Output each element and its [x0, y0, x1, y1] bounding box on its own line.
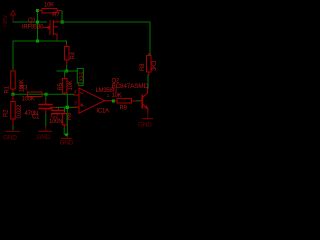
svg-text:100N: 100N [49, 119, 62, 125]
node junction cross [66, 106, 69, 109]
wire cross vertical [66, 94, 68, 134]
resistor R9 [115, 98, 137, 103]
resistor R5 [62, 77, 67, 95]
wire drain left down [12, 41, 14, 70]
svg-text:10K: 10K [112, 93, 122, 99]
node junction drain net [36, 40, 39, 43]
resistor R3 [28, 92, 43, 97]
wire drain right down to R4 [66, 41, 68, 44]
resistor R7 [39, 9, 62, 13]
svg-text:X1-1: X1-1 [79, 71, 85, 81]
svg-text:GND: GND [60, 140, 74, 147]
svg-text:R1: R1 [5, 85, 11, 93]
wire R6 top [63, 107, 65, 111]
node junction R1/R2/R3 [12, 93, 15, 96]
ground R2 [6, 131, 20, 133]
node junction R4 bottom [65, 70, 68, 73]
wire R2 to gnd [12, 126, 14, 130]
connector X1 pin box [77, 69, 83, 84]
wire connector pin stub [79, 83, 83, 86]
svg-text:Q1: Q1 [28, 18, 36, 24]
svg-text:0.022: 0.022 [17, 104, 23, 119]
svg-text:C1: C1 [32, 114, 40, 120]
svg-text:R6: R6 [67, 112, 73, 120]
resistor R2 [11, 96, 16, 127]
svg-text:R5: R5 [58, 82, 64, 90]
op-amp IC1A [74, 88, 112, 113]
wire R9 to Q2 base [137, 100, 140, 102]
ground Q2 [143, 112, 153, 119]
wire C1 top [45, 94, 47, 99]
wire R7-right down [61, 11, 63, 22]
wire R4 bottom [66, 65, 68, 71]
transistor Q1 [44, 21, 62, 42]
wire op-amp output [112, 100, 115, 102]
svg-text:IRF9530: IRF9530 [22, 25, 44, 31]
svg-text:GND: GND [3, 135, 17, 142]
wire R6 bottom elbow [64, 128, 68, 134]
transistor Q2 [140, 88, 148, 112]
svg-text:R9: R9 [120, 106, 128, 112]
supply +20V symbol [11, 11, 16, 23]
svg-text:GND: GND [138, 122, 152, 129]
resistor R1 [11, 70, 16, 93]
svg-text:R7: R7 [52, 13, 60, 19]
svg-text:R3: R3 [20, 85, 28, 91]
svg-text:GND: GND [37, 134, 51, 141]
wire R5 top [64, 71, 66, 77]
wire Q2 collector [147, 75, 149, 88]
resistor R8 [147, 54, 152, 76]
node junction rail cross [36, 21, 39, 24]
wire C1 bottom [45, 114, 47, 127]
wire gate rail to R8 [62, 22, 150, 55]
svg-text:R8: R8 [140, 63, 146, 71]
wire R4 junction to connector [57, 70, 77, 72]
svg-text:BC847ASMD: BC847ASMD [112, 83, 149, 90]
wire pin3 cross [57, 106, 78, 108]
svg-text:100K: 100K [22, 96, 35, 102]
wire sense net [13, 93, 74, 95]
ground C1 [39, 127, 52, 132]
wire +20V rail [13, 21, 47, 23]
node junction R7-left [36, 9, 39, 12]
wire drain net [13, 40, 67, 42]
svg-text:+20V: +20V [3, 15, 9, 28]
capacitor C1 [39, 99, 52, 114]
node junction C1 tap [45, 93, 48, 96]
svg-text:R4: R4 [71, 51, 77, 59]
node junction output [112, 100, 115, 103]
svg-text:10K: 10K [68, 80, 74, 90]
node junction gate rail [61, 20, 64, 23]
resistor R4 [65, 44, 70, 65]
ground C2 [62, 136, 72, 139]
wire vertical R7-left [37, 11, 39, 42]
capacitor C2 [50, 107, 65, 113]
svg-text:3K3: 3K3 [152, 60, 158, 71]
svg-text:10K: 10K [44, 2, 54, 8]
svg-text:R2: R2 [4, 109, 10, 117]
resistor R6 [62, 111, 67, 128]
node gnd dot [65, 133, 68, 136]
svg-text:IC1A: IC1A [97, 109, 110, 115]
